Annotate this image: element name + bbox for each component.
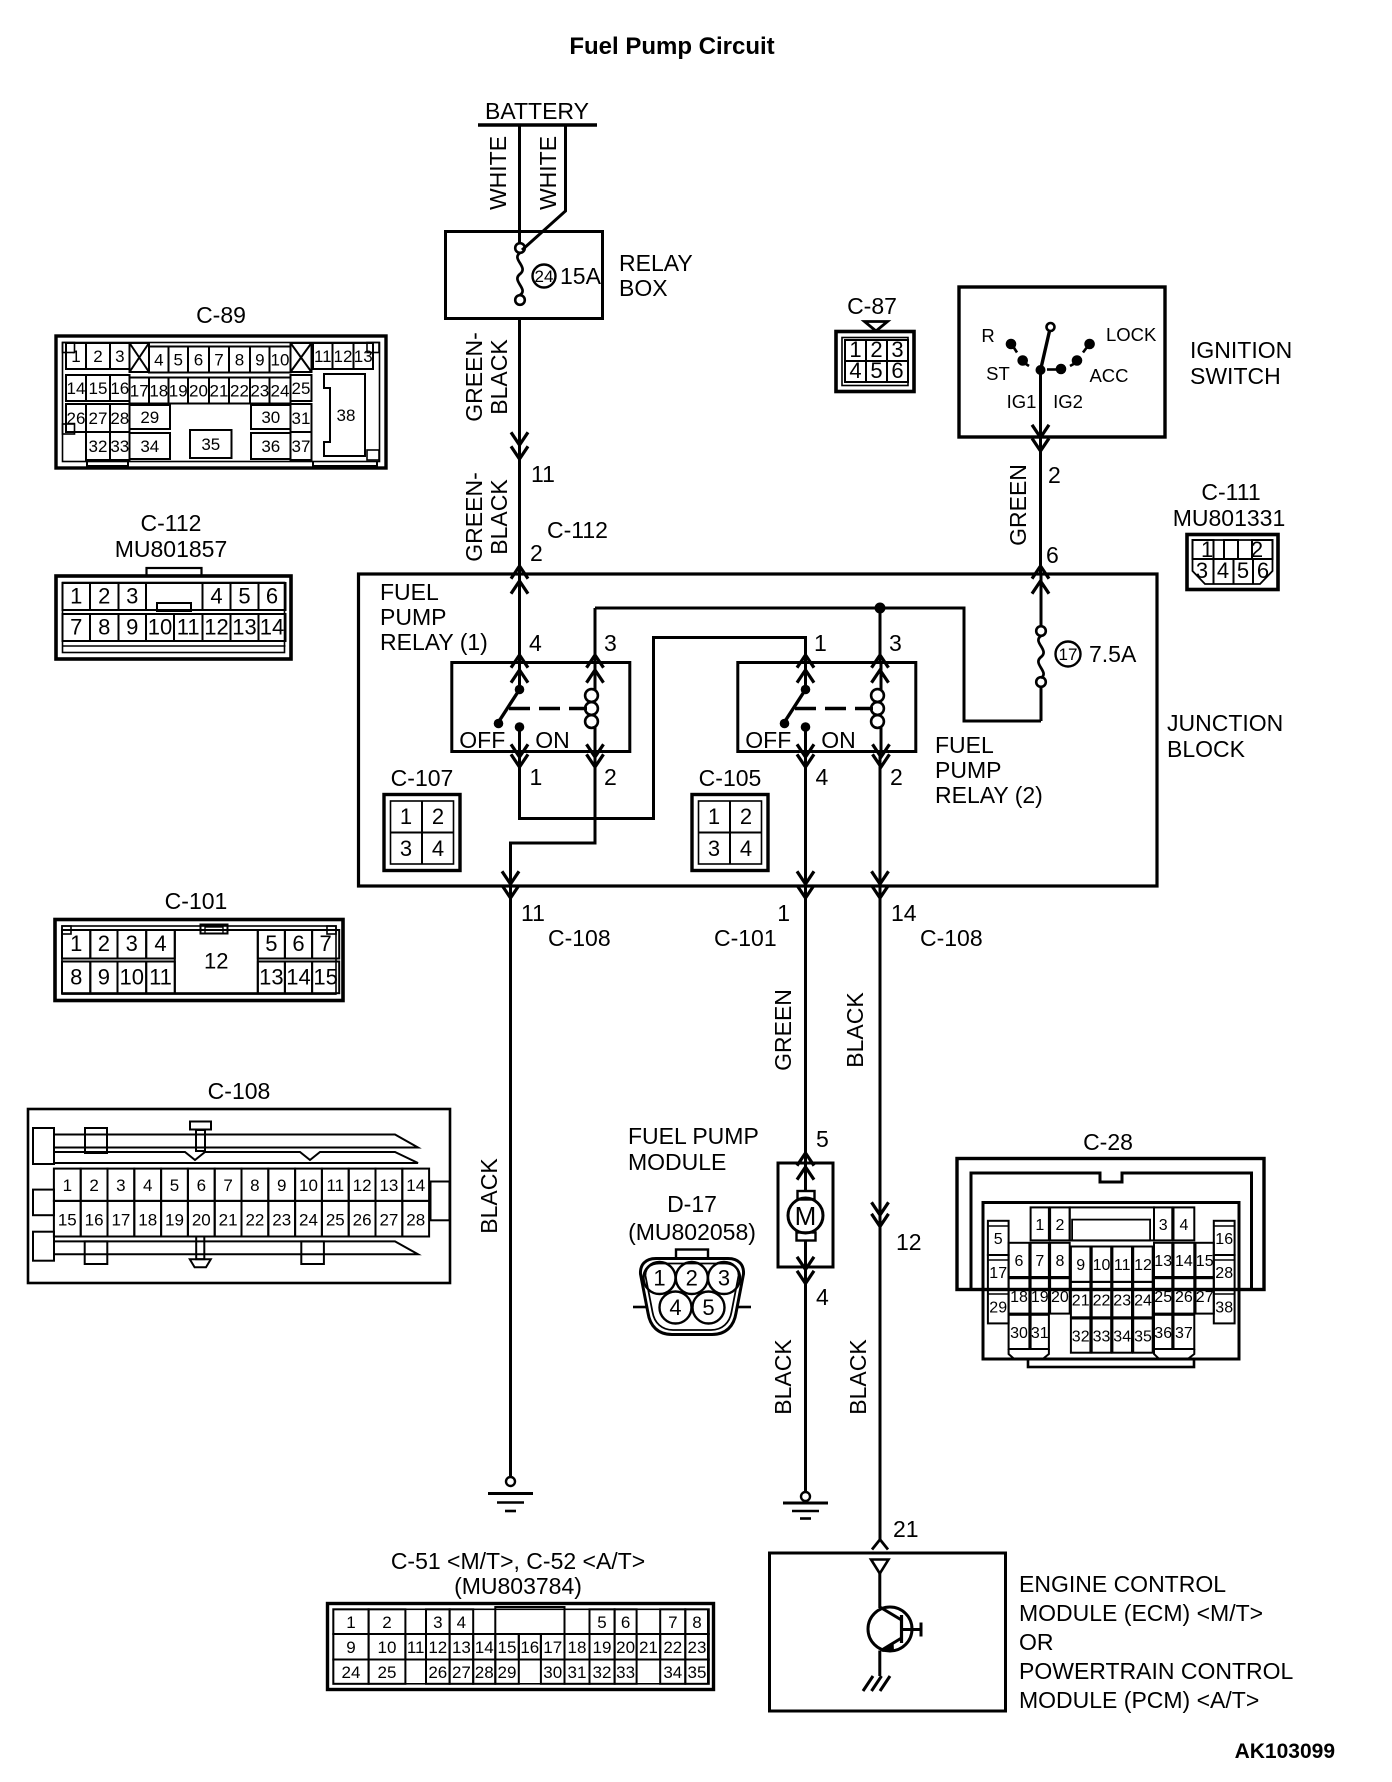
- svg-text:18: 18: [568, 1638, 587, 1657]
- svg-text:4: 4: [669, 1295, 681, 1320]
- svg-text:3: 3: [126, 584, 138, 609]
- wire 14 BLACK: [879, 886, 882, 1539]
- svg-text:IG2: IG2: [1053, 391, 1083, 412]
- svg-text:11: 11: [177, 615, 200, 640]
- svg-text:15: 15: [498, 1638, 517, 1657]
- svg-text:C-105: C-105: [699, 765, 762, 791]
- svg-text:1: 1: [653, 1266, 665, 1291]
- svg-text:1: 1: [814, 630, 827, 656]
- svg-text:BLOCK: BLOCK: [1167, 736, 1246, 762]
- svg-text:34: 34: [663, 1663, 682, 1682]
- svg-text:12: 12: [896, 1229, 922, 1255]
- wire end arrow 21: [872, 1540, 888, 1550]
- svg-text:4: 4: [816, 1284, 829, 1310]
- svg-text:GREEN: GREEN: [770, 989, 796, 1071]
- transistor Q (output driver): [878, 1574, 881, 1609]
- motor M: [804, 1163, 807, 1191]
- svg-text:22: 22: [230, 382, 249, 401]
- svg-text:16: 16: [110, 379, 129, 398]
- fuel pump module box: [778, 1163, 833, 1267]
- connector C-87: [836, 293, 914, 392]
- svg-text:C-108: C-108: [920, 925, 983, 951]
- svg-text:21: 21: [639, 1638, 658, 1657]
- svg-text:5: 5: [597, 1613, 606, 1632]
- svg-text:GREEN-: GREEN-: [461, 472, 487, 561]
- svg-text:5: 5: [702, 1295, 714, 1320]
- svg-text:26: 26: [1175, 1289, 1193, 1306]
- svg-text:7: 7: [70, 615, 82, 640]
- svg-text:MU801331: MU801331: [1173, 505, 1286, 531]
- wire junction top to relay1 pin 4: [518, 574, 521, 685]
- wire relay2 pin 3: [879, 608, 882, 663]
- svg-text:2: 2: [604, 764, 617, 790]
- wire 4 BLACK to ground: [804, 1267, 807, 1492]
- svg-text:JUNCTION: JUNCTION: [1167, 710, 1283, 736]
- battery bus bar: [478, 123, 597, 127]
- svg-text:17: 17: [1059, 645, 1078, 664]
- svg-text:4: 4: [529, 630, 542, 656]
- svg-text:33: 33: [1093, 1329, 1111, 1346]
- fuse 17 7.5A: [1040, 574, 1043, 626]
- connector D-17: [628, 1191, 756, 1335]
- svg-text:6: 6: [1257, 558, 1269, 583]
- wire relay1 pin 3: [594, 608, 597, 663]
- svg-text:C-51 <M/T>, C-52 <A/T>: C-51 <M/T>, C-52 <A/T>: [391, 1548, 645, 1574]
- svg-text:Fuel Pump Circuit: Fuel Pump Circuit: [569, 33, 774, 60]
- svg-text:29: 29: [140, 408, 159, 427]
- svg-text:WHITE: WHITE: [535, 136, 561, 210]
- svg-text:4: 4: [1179, 1217, 1188, 1234]
- svg-text:13: 13: [259, 964, 283, 989]
- svg-text:5: 5: [816, 1126, 829, 1152]
- svg-text:9: 9: [126, 615, 138, 640]
- svg-text:33: 33: [110, 437, 129, 456]
- svg-text:35: 35: [1134, 1329, 1152, 1346]
- svg-text:20: 20: [192, 1211, 211, 1230]
- svg-text:14: 14: [286, 964, 310, 989]
- svg-text:3: 3: [708, 836, 720, 861]
- connector C-111: [1173, 479, 1286, 590]
- svg-text:OFF: OFF: [459, 727, 505, 753]
- svg-text:22: 22: [1093, 1293, 1111, 1310]
- connector C-112: [56, 510, 291, 659]
- wire battery left WHITE: [518, 125, 521, 244]
- wire coil feed horizontal: [595, 608, 1041, 721]
- svg-text:4: 4: [849, 358, 861, 383]
- svg-text:2: 2: [530, 540, 543, 566]
- svg-text:11: 11: [407, 1638, 425, 1657]
- junction block: [359, 574, 1158, 886]
- svg-text:1: 1: [400, 804, 412, 829]
- svg-text:AK103099: AK103099: [1235, 1740, 1335, 1763]
- svg-text:5: 5: [265, 931, 277, 956]
- svg-text:C-111: C-111: [1201, 479, 1260, 505]
- svg-text:6: 6: [194, 351, 203, 370]
- svg-text:5: 5: [170, 1176, 179, 1195]
- svg-text:LOCK: LOCK: [1106, 324, 1157, 345]
- svg-text:BLACK: BLACK: [486, 339, 512, 415]
- svg-text:3: 3: [116, 1176, 125, 1195]
- svg-text:1: 1: [530, 764, 543, 790]
- svg-text:28: 28: [475, 1663, 494, 1682]
- svg-text:8: 8: [250, 1176, 259, 1195]
- svg-text:2: 2: [1055, 1217, 1064, 1234]
- svg-text:FUEL: FUEL: [935, 732, 994, 758]
- wire relay box to junction block GREEN-BLACK: [518, 319, 521, 575]
- svg-text:28: 28: [406, 1211, 425, 1230]
- svg-text:C-107: C-107: [391, 765, 454, 791]
- svg-text:4: 4: [154, 931, 166, 956]
- svg-text:FUEL PUMP: FUEL PUMP: [628, 1123, 759, 1149]
- svg-text:ENGINE CONTROL: ENGINE CONTROL: [1019, 1571, 1226, 1597]
- wire relay1 pin2 to exit 11: [511, 752, 596, 887]
- svg-text:1: 1: [70, 931, 82, 956]
- ground (left): [506, 1477, 515, 1486]
- svg-text:7: 7: [319, 931, 331, 956]
- svg-text:3: 3: [1196, 558, 1208, 583]
- svg-text:30: 30: [261, 408, 280, 427]
- ignition switch: [959, 287, 1165, 437]
- svg-text:22: 22: [245, 1211, 264, 1230]
- svg-text:3: 3: [126, 931, 138, 956]
- svg-text:5: 5: [1237, 558, 1249, 583]
- svg-text:13: 13: [1154, 1253, 1172, 1270]
- svg-text:29: 29: [989, 1299, 1007, 1316]
- svg-text:30: 30: [1010, 1325, 1028, 1342]
- svg-text:24: 24: [342, 1663, 361, 1682]
- svg-text:34: 34: [1113, 1329, 1131, 1346]
- svg-text:21: 21: [219, 1211, 238, 1230]
- svg-text:20: 20: [616, 1638, 635, 1657]
- svg-text:23: 23: [272, 1211, 291, 1230]
- wire ignition GREEN: [1039, 370, 1042, 574]
- svg-text:ST: ST: [986, 363, 1010, 384]
- svg-text:29: 29: [498, 1663, 517, 1682]
- svg-text:3: 3: [889, 630, 902, 656]
- svg-text:GREEN: GREEN: [1005, 464, 1031, 546]
- svg-text:2: 2: [98, 931, 110, 956]
- svg-text:27: 27: [89, 409, 108, 428]
- wire relay2 pin4 to exit 1: [804, 752, 807, 887]
- svg-text:2: 2: [93, 347, 102, 366]
- svg-text:33: 33: [616, 1663, 635, 1682]
- svg-text:36: 36: [1154, 1325, 1172, 1342]
- svg-text:1: 1: [777, 900, 790, 926]
- svg-text:BLACK: BLACK: [486, 479, 512, 555]
- svg-text:26: 26: [428, 1663, 447, 1682]
- svg-text:2: 2: [740, 804, 752, 829]
- svg-text:MODULE: MODULE: [628, 1149, 726, 1175]
- svg-text:RELAY (2): RELAY (2): [935, 782, 1043, 808]
- svg-text:25: 25: [292, 379, 311, 398]
- svg-text:6: 6: [197, 1176, 206, 1195]
- svg-text:12: 12: [353, 1176, 372, 1195]
- svg-text:16: 16: [520, 1638, 539, 1657]
- svg-text:MU801857: MU801857: [115, 536, 228, 562]
- svg-text:27: 27: [379, 1211, 398, 1230]
- svg-text:2: 2: [89, 1176, 98, 1195]
- svg-text:C-101: C-101: [714, 925, 777, 951]
- svg-text:(MU803784): (MU803784): [454, 1573, 582, 1599]
- svg-text:31: 31: [568, 1663, 587, 1682]
- svg-text:IG1: IG1: [1007, 391, 1037, 412]
- svg-text:6: 6: [621, 1613, 630, 1632]
- svg-text:12: 12: [428, 1638, 447, 1657]
- svg-text:37: 37: [292, 437, 311, 456]
- svg-text:19: 19: [165, 1211, 184, 1230]
- svg-text:24: 24: [271, 382, 290, 401]
- svg-text:38: 38: [1215, 1299, 1233, 1316]
- svg-text:11: 11: [149, 964, 172, 989]
- svg-text:C-101: C-101: [165, 888, 228, 914]
- svg-text:17: 17: [130, 382, 149, 401]
- svg-text:POWERTRAIN CONTROL: POWERTRAIN CONTROL: [1019, 1658, 1294, 1684]
- svg-text:11: 11: [521, 900, 545, 926]
- svg-text:2: 2: [432, 804, 444, 829]
- svg-text:14: 14: [891, 900, 917, 926]
- svg-text:23: 23: [1113, 1293, 1131, 1310]
- svg-text:3: 3: [400, 836, 412, 861]
- svg-text:14: 14: [406, 1176, 425, 1195]
- svg-text:3: 3: [718, 1266, 730, 1291]
- svg-text:14: 14: [260, 615, 284, 640]
- svg-text:17: 17: [111, 1211, 130, 1230]
- svg-text:12: 12: [1134, 1257, 1152, 1274]
- svg-text:2: 2: [686, 1266, 698, 1291]
- svg-text:32: 32: [593, 1663, 612, 1682]
- svg-text:21: 21: [893, 1516, 919, 1542]
- svg-text:1: 1: [71, 347, 80, 366]
- svg-text:BOX: BOX: [619, 275, 668, 301]
- svg-text:27: 27: [1196, 1289, 1214, 1306]
- svg-text:16: 16: [85, 1211, 104, 1230]
- connector C-101: [55, 888, 343, 1001]
- svg-text:24: 24: [1134, 1293, 1152, 1310]
- svg-text:3: 3: [604, 630, 617, 656]
- svg-text:8: 8: [1055, 1253, 1064, 1270]
- svg-text:5: 5: [870, 358, 882, 383]
- svg-text:10: 10: [1093, 1257, 1111, 1274]
- connector C-105: [692, 765, 768, 871]
- svg-text:14: 14: [475, 1638, 494, 1657]
- svg-text:4: 4: [740, 836, 752, 861]
- svg-text:C-108: C-108: [548, 925, 611, 951]
- svg-text:15: 15: [58, 1211, 77, 1230]
- svg-text:21: 21: [210, 382, 229, 401]
- svg-text:RELAY (1): RELAY (1): [380, 629, 488, 655]
- svg-text:C-89: C-89: [196, 302, 246, 328]
- svg-text:37: 37: [1175, 1325, 1193, 1342]
- svg-text:10: 10: [271, 351, 290, 370]
- svg-text:(MU802058): (MU802058): [628, 1219, 756, 1245]
- wire relay2 pin2 to exit 14: [879, 752, 882, 887]
- svg-text:5: 5: [238, 584, 250, 609]
- svg-text:9: 9: [346, 1638, 355, 1657]
- connector C-108: [28, 1078, 450, 1283]
- svg-text:SWITCH: SWITCH: [1190, 363, 1281, 389]
- svg-text:7: 7: [223, 1176, 232, 1195]
- svg-text:2: 2: [890, 764, 903, 790]
- connector C-28: [957, 1129, 1264, 1367]
- svg-text:8: 8: [70, 964, 82, 989]
- svg-text:20: 20: [1051, 1289, 1069, 1306]
- svg-text:4: 4: [210, 584, 222, 609]
- svg-text:4: 4: [143, 1176, 152, 1195]
- svg-text:RELAY: RELAY: [619, 250, 693, 276]
- svg-text:15A: 15A: [560, 263, 602, 289]
- svg-text:4: 4: [154, 351, 163, 370]
- svg-text:8: 8: [98, 615, 110, 640]
- svg-text:35: 35: [688, 1663, 707, 1682]
- svg-text:12: 12: [204, 949, 228, 974]
- svg-text:28: 28: [1215, 1265, 1233, 1282]
- svg-text:3: 3: [1159, 1217, 1168, 1234]
- svg-text:9: 9: [98, 964, 110, 989]
- svg-text:19: 19: [169, 382, 188, 401]
- svg-text:31: 31: [292, 409, 311, 428]
- svg-text:BATTERY: BATTERY: [485, 98, 589, 124]
- svg-text:10: 10: [148, 615, 172, 640]
- svg-text:17: 17: [543, 1638, 562, 1657]
- svg-text:3: 3: [115, 347, 124, 366]
- svg-text:1: 1: [708, 804, 720, 829]
- svg-text:PUMP: PUMP: [935, 757, 1001, 783]
- ECM / PCM box: [770, 1553, 1006, 1711]
- svg-text:13: 13: [452, 1638, 471, 1657]
- svg-text:2: 2: [1048, 462, 1061, 488]
- svg-text:D-17: D-17: [667, 1191, 717, 1217]
- svg-text:6: 6: [292, 931, 304, 956]
- svg-text:BLACK: BLACK: [476, 1158, 502, 1234]
- svg-text:24: 24: [299, 1211, 318, 1230]
- svg-text:4: 4: [457, 1613, 466, 1632]
- svg-text:5: 5: [994, 1231, 1003, 1248]
- svg-text:ACC: ACC: [1089, 365, 1128, 386]
- svg-text:R: R: [981, 325, 994, 346]
- svg-text:15: 15: [313, 964, 337, 989]
- svg-text:21: 21: [1072, 1293, 1090, 1310]
- svg-text:7: 7: [214, 351, 223, 370]
- svg-text:6: 6: [266, 584, 278, 609]
- svg-text:1: 1: [63, 1176, 72, 1195]
- svg-text:9: 9: [1076, 1257, 1085, 1274]
- svg-text:34: 34: [140, 437, 159, 456]
- svg-text:FUEL: FUEL: [380, 579, 439, 605]
- svg-text:32: 32: [1072, 1329, 1090, 1346]
- svg-text:C-112: C-112: [547, 517, 608, 543]
- svg-text:PUMP: PUMP: [380, 604, 446, 630]
- svg-text:MODULE (PCM) <A/T>: MODULE (PCM) <A/T>: [1019, 1687, 1259, 1713]
- svg-text:ON: ON: [535, 727, 570, 753]
- svg-text:6: 6: [1046, 542, 1059, 568]
- svg-text:13: 13: [232, 615, 256, 640]
- svg-text:OFF: OFF: [745, 727, 791, 753]
- svg-text:24: 24: [535, 267, 554, 286]
- svg-text:7: 7: [668, 1613, 677, 1632]
- svg-text:10: 10: [120, 964, 144, 989]
- svg-text:M: M: [795, 1201, 817, 1231]
- svg-text:4: 4: [1217, 558, 1229, 583]
- connector C-107: [384, 765, 460, 871]
- svg-text:2: 2: [382, 1613, 391, 1632]
- svg-text:1: 1: [70, 584, 82, 609]
- svg-text:32: 32: [89, 437, 108, 456]
- svg-text:MODULE (ECM) <M/T>: MODULE (ECM) <M/T>: [1019, 1600, 1263, 1626]
- svg-text:11: 11: [531, 461, 555, 487]
- svg-text:7.5A: 7.5A: [1089, 641, 1137, 667]
- svg-text:6: 6: [1015, 1253, 1024, 1270]
- svg-text:10: 10: [378, 1638, 397, 1657]
- svg-text:14: 14: [1175, 1253, 1193, 1270]
- svg-text:36: 36: [261, 437, 280, 456]
- svg-text:OR: OR: [1019, 1629, 1054, 1655]
- svg-text:C-112: C-112: [141, 510, 202, 536]
- svg-text:8: 8: [235, 351, 244, 370]
- ground (fuel pump): [801, 1492, 810, 1501]
- svg-text:C-28: C-28: [1083, 1129, 1133, 1155]
- connector C-51/C-52: [328, 1548, 714, 1690]
- fuel pump relay 2: [738, 663, 916, 752]
- svg-text:5: 5: [173, 351, 182, 370]
- svg-text:4: 4: [432, 836, 444, 861]
- svg-text:20: 20: [189, 382, 208, 401]
- wire battery right WHITE: [522, 125, 566, 250]
- svg-text:27: 27: [452, 1663, 471, 1682]
- svg-text:BLACK: BLACK: [770, 1339, 796, 1415]
- svg-text:22: 22: [663, 1638, 682, 1657]
- svg-text:2: 2: [98, 584, 110, 609]
- relay box: [446, 232, 603, 319]
- svg-text:BLACK: BLACK: [842, 992, 868, 1068]
- fuel pump relay 1: [452, 663, 630, 752]
- svg-text:19: 19: [593, 1638, 612, 1657]
- svg-text:18: 18: [149, 382, 168, 401]
- svg-text:4: 4: [816, 764, 829, 790]
- svg-text:BLACK: BLACK: [845, 1339, 871, 1415]
- wire relay1 pin1 to relay2 pin1: [520, 638, 806, 819]
- node junction dot: [875, 603, 886, 614]
- svg-text:17: 17: [989, 1265, 1007, 1282]
- svg-text:23: 23: [250, 382, 269, 401]
- svg-text:15: 15: [1196, 1253, 1214, 1270]
- svg-text:16: 16: [1215, 1231, 1233, 1248]
- svg-text:8: 8: [692, 1613, 701, 1632]
- svg-text:C-87: C-87: [847, 293, 897, 319]
- pin triangle: [871, 1560, 889, 1574]
- svg-text:25: 25: [326, 1211, 345, 1230]
- svg-text:ON: ON: [821, 727, 856, 753]
- svg-text:12: 12: [334, 347, 353, 366]
- connector C-89: [56, 302, 386, 468]
- svg-text:9: 9: [277, 1176, 286, 1195]
- svg-text:30: 30: [543, 1663, 562, 1682]
- svg-text:6: 6: [891, 358, 903, 383]
- svg-text:C-108: C-108: [208, 1078, 271, 1104]
- svg-text:31: 31: [1031, 1325, 1049, 1342]
- chassis ground (ECM): [863, 1676, 873, 1691]
- svg-text:1: 1: [1035, 1217, 1044, 1234]
- svg-text:WHITE: WHITE: [485, 136, 511, 210]
- svg-text:25: 25: [378, 1663, 397, 1682]
- svg-text:23: 23: [688, 1638, 707, 1657]
- svg-text:19: 19: [1031, 1289, 1049, 1306]
- svg-text:GREEN-: GREEN-: [461, 332, 487, 421]
- svg-text:18: 18: [1010, 1289, 1028, 1306]
- svg-text:7: 7: [1035, 1253, 1044, 1270]
- wire 11 BLACK to ground: [509, 886, 512, 1477]
- svg-text:38: 38: [337, 406, 356, 425]
- svg-text:11: 11: [314, 347, 332, 366]
